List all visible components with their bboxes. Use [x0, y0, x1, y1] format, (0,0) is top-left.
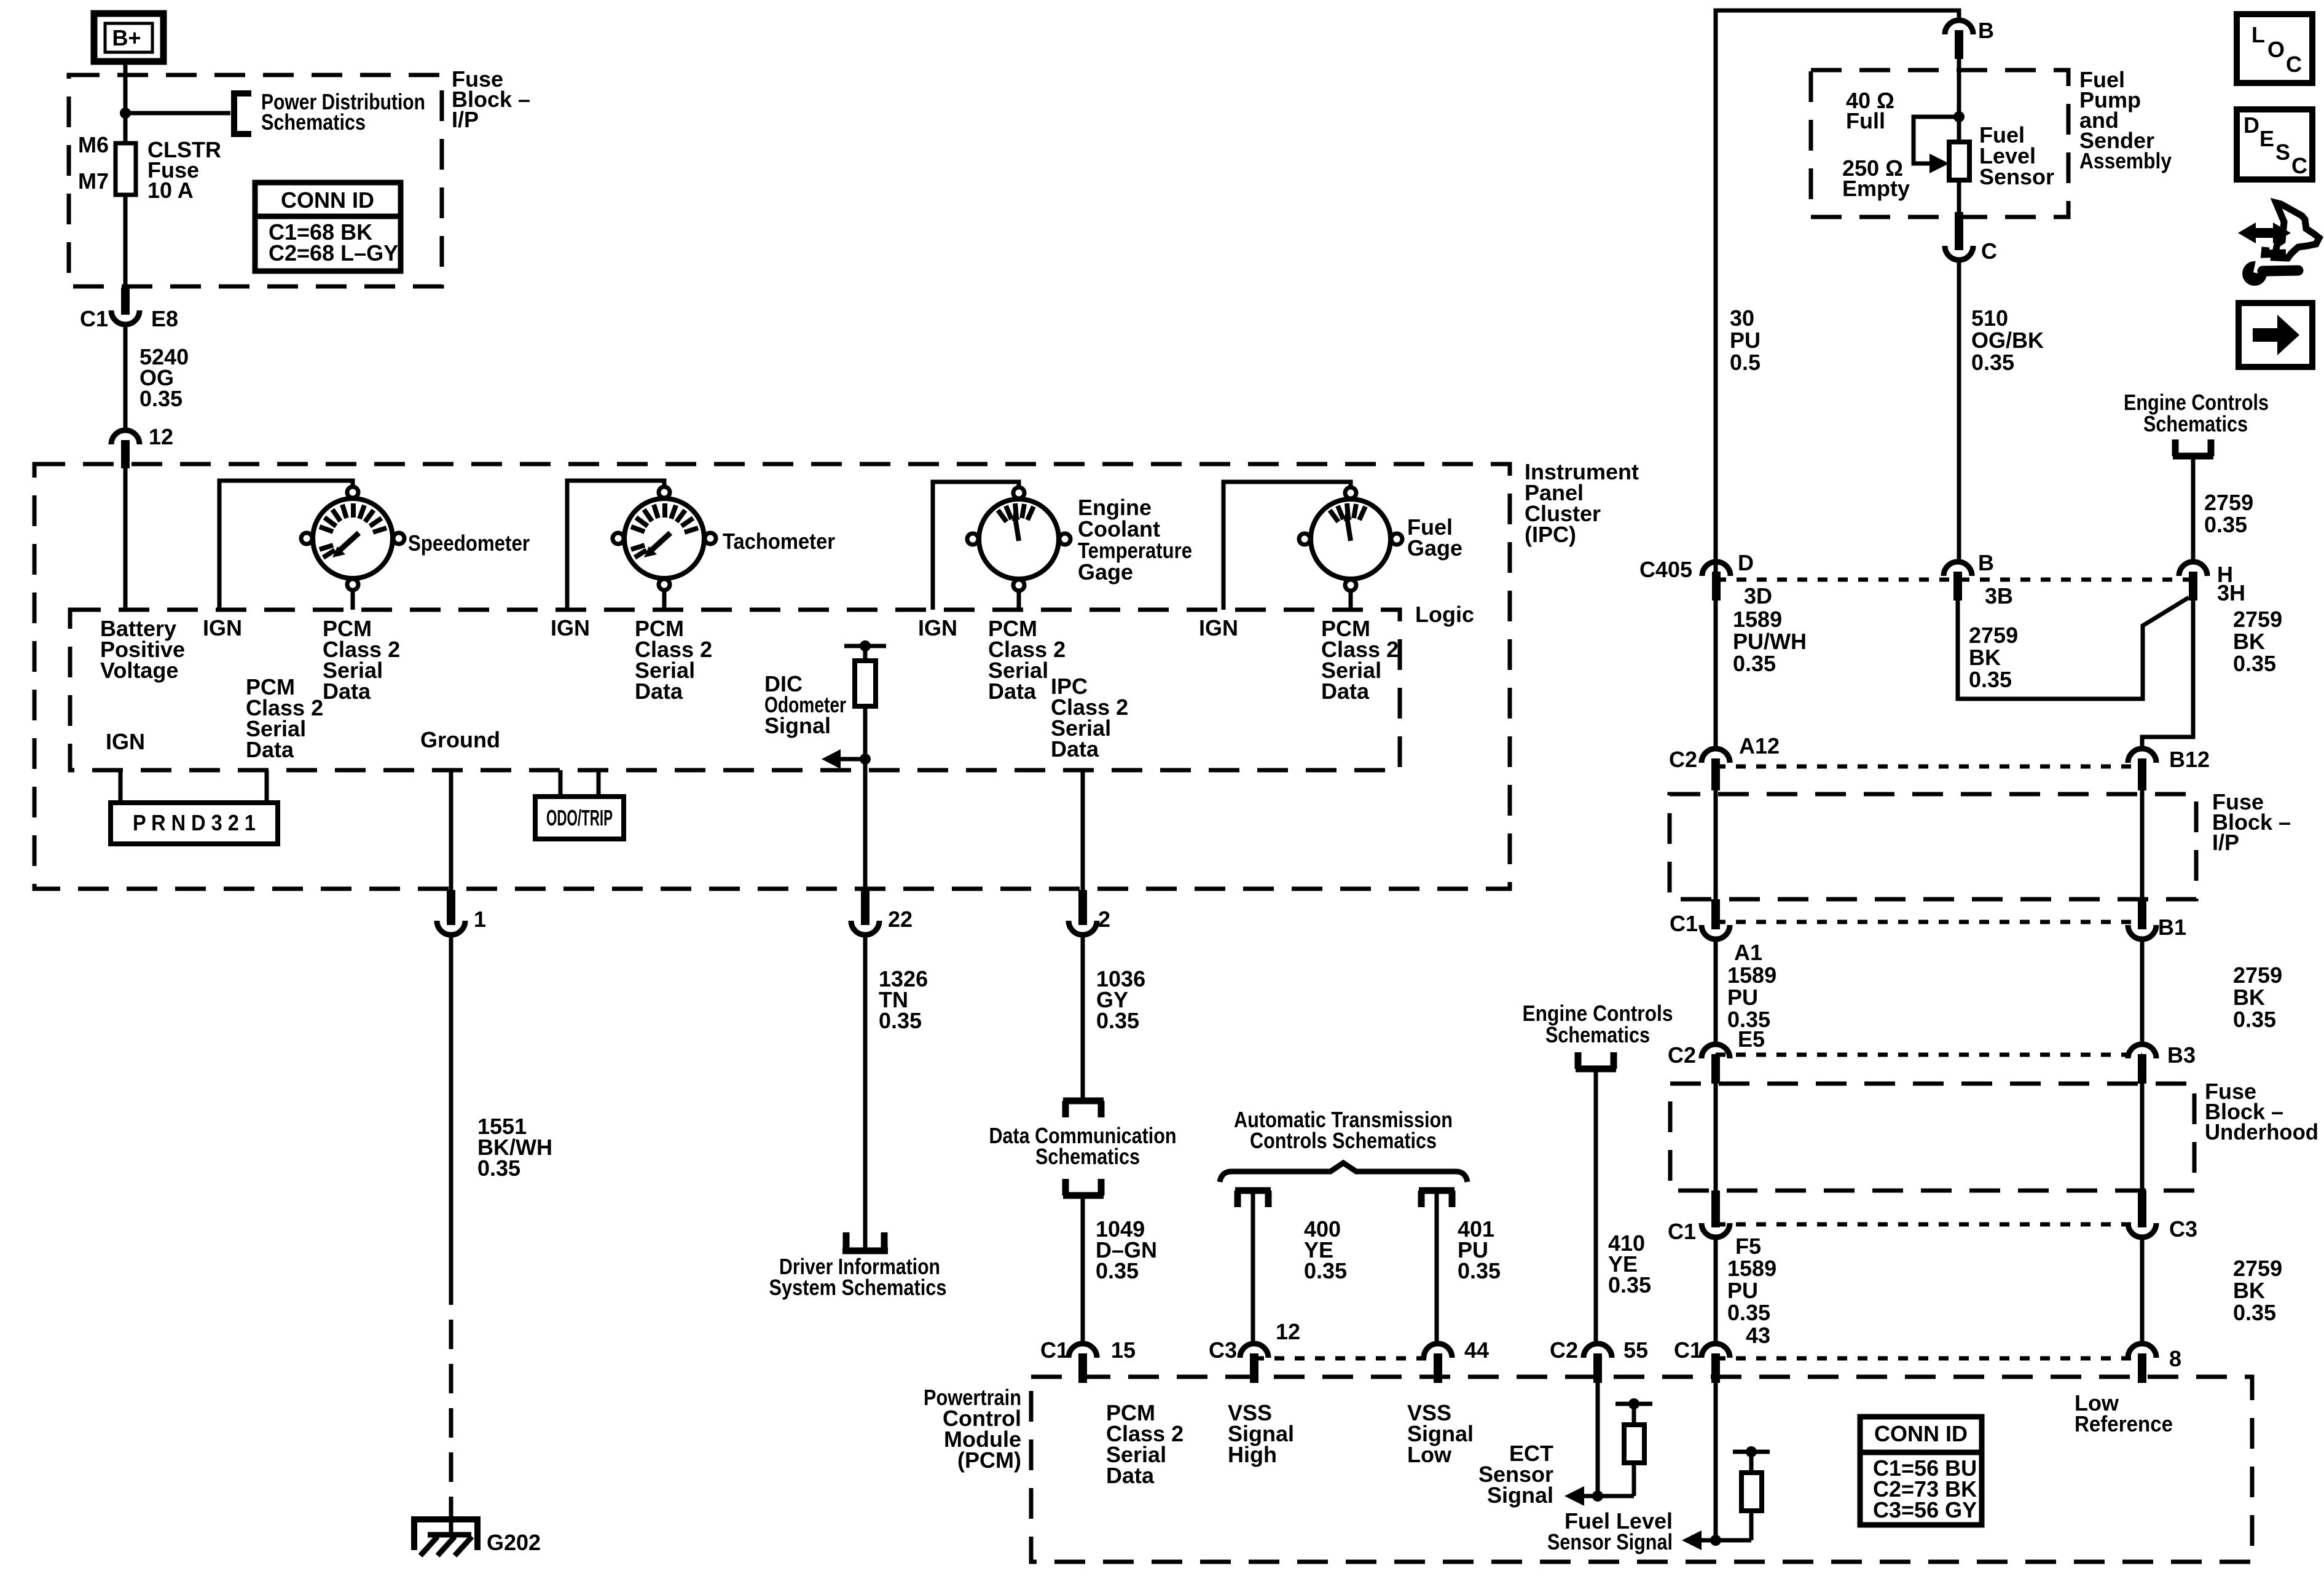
node junction at B+ feed: [120, 108, 131, 119]
connector 12 into IPC: [111, 424, 173, 468]
IPC logic inner dashed box: [70, 610, 1400, 770]
gauge engine coolant temperature: [967, 487, 1192, 591]
connector C3 out of fuse block underhood: [2128, 1191, 2197, 1242]
svg-text:O: O: [2267, 37, 2285, 62]
label battery positive voltage: [100, 616, 185, 683]
svg-text:C: C: [1981, 238, 1997, 264]
svg-text:B3: B3: [2167, 1042, 2196, 1068]
svg-text:IGN: IGN: [551, 615, 590, 640]
svg-text:2759: 2759: [2233, 607, 2282, 632]
svg-text:1589: 1589: [1727, 1256, 1776, 1281]
wire 2759 BK 0.35 (C3-8): [2142, 1237, 2282, 1344]
connector row dotted C1/A1-B1: [1716, 920, 2142, 924]
PRND321 display box: [111, 803, 278, 844]
wire ground drop inside IPC: [449, 770, 453, 890]
label engine controls schematics (right top): [2124, 390, 2269, 436]
label Fuse Block - I/P: [452, 66, 530, 132]
connector row dotted F5-C3: [1716, 1223, 2142, 1227]
wire speedometer PCM data: [351, 590, 355, 610]
wire tachometer PCM data: [662, 590, 667, 610]
connector B12 into fuse block IP: [2128, 747, 2210, 790]
svg-text:F5: F5: [1735, 1234, 1761, 1259]
svg-text:B1: B1: [2158, 915, 2186, 940]
svg-text:C3: C3: [1209, 1337, 1237, 1363]
svg-text:Tachometer: Tachometer: [723, 529, 835, 554]
connector B3 into fuse block underhood: [2128, 1042, 2196, 1084]
wire IGN fuel gage: [1223, 482, 1351, 610]
svg-text:0.35: 0.35: [2233, 651, 2276, 676]
wire battery feed inside IPC: [124, 468, 128, 610]
svg-text:1589: 1589: [1727, 963, 1776, 988]
svg-text:Signal: Signal: [764, 713, 831, 738]
svg-text:Data: Data: [988, 679, 1037, 704]
repair icon double arrow: [2238, 222, 2291, 243]
label Powertrain Control Module (PCM): [924, 1385, 1021, 1473]
svg-text:IGN: IGN: [106, 729, 145, 754]
svg-text:12: 12: [149, 424, 173, 449]
svg-text:BK: BK: [2233, 629, 2265, 654]
wire 5240 OG 0.35: [125, 324, 189, 431]
label 40 ohm full: [1846, 88, 1894, 133]
svg-text:C1: C1: [1670, 911, 1698, 936]
svg-text:0.35: 0.35: [1727, 1300, 1770, 1325]
svg-text:3B: 3B: [1985, 583, 2013, 608]
wire 1036 GY 0.35: [1083, 935, 1145, 1098]
svg-text:(IPC): (IPC): [1525, 522, 1576, 547]
svg-text:8: 8: [2169, 1346, 2181, 1371]
wire 2759 BK 0.35 (3H): [2142, 600, 2282, 749]
wire 2759 BK 0.35 (3B): [1958, 597, 2189, 699]
svg-text:M6: M6: [78, 132, 109, 157]
wire through fuse block underhood right: [2140, 1084, 2145, 1191]
svg-text:OG/BK: OG/BK: [1971, 328, 2044, 353]
wire 400 YE 0.35: [1253, 1194, 1347, 1344]
svg-text:Gage: Gage: [1407, 535, 1462, 561]
svg-text:510: 510: [1971, 305, 2008, 331]
label Engine Controls Schematics (ECT source): [1523, 1001, 1673, 1047]
connector 44 into PCM: [1424, 1337, 1489, 1383]
svg-text:0.35: 0.35: [2233, 1007, 2276, 1032]
svg-text:B: B: [1978, 550, 1994, 575]
svg-text:1: 1: [474, 907, 486, 932]
wire 510 OG/BK 0.35: [1959, 260, 2044, 563]
label PCM class 2 serial data (coolant gauge): [988, 616, 1066, 704]
label VSS signal high: [1228, 1400, 1294, 1467]
label PCM class 2 serial data (speedometer): [323, 616, 400, 704]
svg-text:0.35: 0.35: [1608, 1272, 1651, 1297]
svg-text:Gage: Gage: [1078, 559, 1133, 585]
connector B into fuel pump assembly: [1945, 18, 1994, 59]
fuse block IP dashed box (right): [1670, 794, 2196, 899]
svg-text:PU: PU: [1727, 1278, 1758, 1303]
svg-text:Schematics: Schematics: [2143, 411, 2248, 436]
wire 410 YE 0.35: [1596, 1069, 1651, 1344]
svg-text:D: D: [2244, 112, 2259, 138]
svg-text:22: 22: [888, 907, 913, 932]
wire 1589 PU/WH 0.35 (3D): [1716, 600, 1807, 749]
gauge speedometer: [301, 487, 530, 590]
DESC reference box: [2237, 109, 2312, 179]
wire IGN speedometer: [219, 481, 353, 610]
wire 1551 BK/WH 0.35 to G202: [451, 935, 552, 1509]
connector C1 15 into PCM: [1040, 1337, 1136, 1383]
svg-text:Ground: Ground: [420, 727, 500, 752]
wire 1049 D-GN 0.35: [1083, 1195, 1157, 1344]
label PCM class 2 serial data (PRND321): [246, 674, 323, 762]
label PCM class 2 serial data (tachometer): [635, 616, 712, 704]
connector B1 out of fuse block IP: [2128, 899, 2186, 940]
svg-text:C: C: [2286, 52, 2302, 77]
tab Driver Information System Schematics: [769, 1232, 947, 1300]
svg-text:0.35: 0.35: [1971, 350, 2014, 375]
svg-text:C: C: [2291, 153, 2307, 178]
svg-text:I/P: I/P: [452, 107, 479, 132]
tab VSS low from AT controls: [1419, 1191, 1454, 1207]
svg-text:Data: Data: [1106, 1463, 1155, 1488]
wire 2759 0.35 to H: [2193, 456, 2253, 563]
svg-text:BK: BK: [2233, 985, 2265, 1010]
wire IGN coolant gauge: [933, 482, 1019, 610]
svg-text:P R N D 3 2 1: P R N D 3 2 1: [133, 810, 256, 835]
svg-text:IGN: IGN: [203, 615, 242, 640]
svg-text:43: 43: [1746, 1323, 1770, 1348]
fuel level sensor potentiometer: [1914, 59, 1969, 212]
tab Power Distribution Schematics: [231, 89, 425, 137]
gauge tachometer: [613, 487, 835, 590]
wire 1589 PU 0.35 (F5-43): [1716, 1237, 1776, 1344]
connector C2 A12 into fuse block IP: [1669, 733, 1780, 790]
svg-text:E8: E8: [151, 306, 178, 331]
svg-text:IGN: IGN: [918, 615, 957, 640]
label ECT sensor signal: [1478, 1441, 1553, 1508]
svg-text:44: 44: [1464, 1337, 1489, 1363]
svg-text:Voltage: Voltage: [100, 658, 178, 683]
connector 2 (IPC class 2 serial data out of IPC): [1069, 890, 1110, 935]
wire through fuse block IP right: [2140, 790, 2145, 899]
wire 2759 BK 0.35 (B1-B3): [2142, 939, 2282, 1045]
repair icon part outline: [2274, 203, 2319, 258]
svg-text:PU: PU: [1730, 328, 1761, 353]
svg-text:C2: C2: [1669, 747, 1697, 772]
svg-text:0.35: 0.35: [477, 1156, 520, 1181]
C405 connector row dotted line: [1716, 578, 2193, 582]
svg-text:A12: A12: [1739, 733, 1780, 758]
svg-text:Sensor: Sensor: [1979, 164, 2054, 189]
fuse block underhood dashed box: [1670, 1084, 2194, 1191]
ground G202: [414, 1509, 541, 1556]
svg-text:10 A: 10 A: [147, 178, 194, 203]
svg-text:Reference: Reference: [2075, 1411, 2173, 1436]
instrument panel cluster IPC dashed box: [34, 464, 1510, 889]
label Automatic Transmission Controls Schematics: [1234, 1107, 1453, 1153]
svg-text:12: 12: [1276, 1319, 1300, 1344]
connector row dotted E5-B3: [1716, 1053, 2142, 1057]
fuel pump and sender assembly dashed box: [1811, 70, 2068, 217]
svg-text:C3: C3: [2169, 1216, 2197, 1242]
svg-text:0.35: 0.35: [2233, 1300, 2276, 1325]
tab VSS high from AT controls: [1235, 1191, 1271, 1207]
label fuse block underhood: [2205, 1079, 2318, 1144]
tab out of Data Communication Schematics: [1063, 1179, 1104, 1195]
wire 401 PU 0.35: [1437, 1194, 1501, 1344]
svg-text:Logic: Logic: [1415, 602, 1474, 627]
svg-text:Data: Data: [635, 679, 683, 704]
svg-text:2: 2: [1098, 907, 1110, 932]
repair icon base line: [2265, 247, 2286, 254]
svg-text:High: High: [1228, 1442, 1277, 1467]
svg-text:C2: C2: [1550, 1337, 1578, 1363]
label fuse block IP (right): [2212, 789, 2291, 855]
svg-text:BK: BK: [2233, 1278, 2265, 1303]
svg-text:CONN ID: CONN ID: [281, 187, 374, 213]
svg-text:15: 15: [1111, 1337, 1136, 1363]
fuse block I/P dashed box (top left): [69, 75, 442, 286]
svg-text:0.35: 0.35: [1458, 1258, 1501, 1283]
battery B+ terminal box: [94, 14, 163, 61]
svg-text:Low: Low: [1407, 1442, 1452, 1467]
svg-text:PU: PU: [1727, 985, 1758, 1010]
svg-text:CONN ID: CONN ID: [1874, 1421, 1968, 1446]
svg-text:C1: C1: [1040, 1337, 1069, 1363]
label low reference: [2075, 1390, 2173, 1436]
svg-text:3H: 3H: [2217, 580, 2245, 605]
svg-text:Schematics: Schematics: [1035, 1144, 1140, 1169]
svg-text:Sensor Signal: Sensor Signal: [1547, 1529, 1673, 1554]
wire fuel pump feed top: [1716, 10, 1959, 578]
svg-text:Data: Data: [1321, 679, 1370, 704]
svg-text:(PCM): (PCM): [957, 1447, 1021, 1473]
ECT sensor signal circuit inside PCM: [1564, 1383, 1652, 1506]
svg-text:0.35: 0.35: [1096, 1258, 1139, 1283]
connector 1 (ground wire out of IPC): [437, 890, 486, 935]
tab from engine controls schematics (right): [2173, 439, 2213, 456]
svg-text:IGN: IGN: [1199, 615, 1238, 640]
svg-text:Underhood: Underhood: [2205, 1119, 2318, 1144]
svg-text:0.35: 0.35: [1969, 667, 2012, 692]
svg-text:S: S: [2275, 140, 2290, 165]
svg-text:A1: A1: [1734, 940, 1762, 965]
svg-text:Assembly: Assembly: [2079, 148, 2172, 173]
svg-text:0.35: 0.35: [1096, 1008, 1139, 1033]
svg-text:G202: G202: [487, 1530, 541, 1555]
wire fuel gage PCM data: [1349, 591, 1353, 610]
connector 22 (DIC odometer signal out of IPC): [851, 890, 913, 935]
svg-text:2759: 2759: [1969, 623, 2018, 648]
connector 8 into PCM: [2128, 1344, 2181, 1383]
label DIC odometer signal: [764, 671, 846, 738]
PCM connector row dotted link C1-43 to 8: [1716, 1357, 2142, 1361]
svg-text:B12: B12: [2169, 747, 2210, 772]
svg-text:M7: M7: [78, 168, 109, 194]
repair icon wrench: [2242, 261, 2298, 286]
svg-text:Controls Schematics: Controls Schematics: [1250, 1128, 1437, 1153]
connector C2 55 into PCM: [1550, 1337, 1648, 1383]
connector C1 43 into PCM: [1674, 1323, 1770, 1383]
wire coolant gauge PCM data: [1017, 591, 1021, 610]
connector C2 E5 into fuse block underhood: [1668, 1026, 1765, 1084]
wire 1589 PU 0.35 (A1-E5): [1716, 939, 1776, 1045]
LOC reference box (top right): [2237, 14, 2312, 83]
svg-text:Full: Full: [1846, 108, 1885, 133]
brace for automatic transmission tabs: [1220, 1163, 1467, 1182]
svg-text:Data: Data: [1051, 736, 1099, 762]
wire IGN to PRND321: [119, 770, 123, 803]
svg-text:BK: BK: [1969, 645, 2001, 670]
svg-text:2759: 2759: [2204, 490, 2253, 515]
svg-text:0.35: 0.35: [139, 386, 183, 411]
connector C3 12 into PCM: [1209, 1319, 1300, 1383]
svg-text:0.35: 0.35: [1304, 1258, 1347, 1283]
svg-text:C2: C2: [1668, 1042, 1696, 1068]
label fuel level sensor: [1979, 122, 2054, 189]
DIC odometer resistor with tap: [822, 640, 886, 889]
connector C out of fuel pump assembly: [1945, 212, 1997, 264]
PCM connector row dotted link C3-12 to 44: [1254, 1357, 1438, 1361]
svg-text:System Schematics: System Schematics: [769, 1275, 947, 1300]
svg-text:3D: 3D: [1744, 583, 1772, 608]
svg-text:PU/WH: PU/WH: [1733, 629, 1807, 654]
svg-text:L: L: [2251, 22, 2265, 47]
svg-text:0.35: 0.35: [2204, 512, 2247, 537]
connector row dotted A12-B12: [1716, 765, 2142, 769]
label 250 ohm empty: [1842, 156, 1910, 201]
svg-text:I/P: I/P: [2212, 830, 2239, 855]
svg-text:ODO/TRIP: ODO/TRIP: [546, 805, 613, 830]
powertrain control module PCM dashed box: [1031, 1377, 2252, 1562]
fuse CLSTR 10A: [78, 132, 221, 203]
label IPC class 2 serial data: [1051, 674, 1128, 762]
connector D of C405: [1702, 550, 1772, 608]
svg-text:0.35: 0.35: [879, 1008, 922, 1033]
svg-text:2759: 2759: [2233, 1256, 2282, 1281]
label VSS signal low: [1407, 1400, 1474, 1467]
wire through fuse block underhood left: [1714, 1084, 1718, 1191]
svg-text:0.5: 0.5: [1730, 350, 1761, 375]
wire IPC class 2 serial data drop: [1081, 770, 1085, 890]
svg-text:C1: C1: [1674, 1337, 1702, 1363]
CONN ID table (PCM): [1860, 1417, 1982, 1525]
connector C1 F5 out of fuse block underhood: [1668, 1191, 1761, 1259]
label Instrument Panel Cluster (IPC): [1525, 459, 1639, 547]
wire 1326 TN 0.35: [865, 935, 928, 1248]
svg-text:0.35: 0.35: [1733, 651, 1776, 676]
label fuel pump and sender assembly: [2079, 67, 2172, 173]
svg-text:Schematics: Schematics: [261, 109, 366, 135]
wire 30 PU 0.5: [1730, 305, 1761, 375]
svg-text:B: B: [1978, 18, 1994, 43]
svg-text:Data: Data: [323, 679, 371, 704]
wire B+ to fuse and connector C1 E8: [124, 61, 128, 289]
label PCM class 2 serial data (fuel gage): [1321, 616, 1399, 704]
wire PCM data to PRND321: [265, 770, 269, 803]
next-page arrow box: [2239, 303, 2312, 367]
svg-text:Speedometer: Speedometer: [408, 530, 530, 556]
svg-text:C1: C1: [80, 306, 108, 331]
label PCM class 2 serial data pin 15: [1106, 1400, 1184, 1488]
tab from Engine Controls Schematics (ECT): [1576, 1052, 1616, 1069]
wires to ODO/TRIP: [559, 770, 563, 797]
svg-text:D: D: [1738, 550, 1754, 575]
wire IGN tachometer: [567, 481, 664, 610]
tab into Data Communication Schematics: [989, 1101, 1177, 1169]
connector H of C405: [2179, 562, 2245, 605]
svg-text:C3=56 GY: C3=56 GY: [1873, 1497, 1977, 1522]
label fuel level sensor signal: [1547, 1508, 1673, 1554]
connector C1 A1 out of fuse block IP: [1670, 899, 1762, 965]
wire to Power Distribution tab: [125, 111, 230, 116]
CONN ID table (fuse block I/P): [255, 183, 401, 271]
svg-text:Signal: Signal: [1487, 1483, 1553, 1508]
ODO/TRIP display box: [535, 797, 624, 839]
wire through fuse block IP left: [1714, 790, 1718, 899]
svg-text:30: 30: [1730, 305, 1754, 331]
svg-text:Empty: Empty: [1842, 176, 1910, 201]
svg-text:Data: Data: [246, 737, 294, 762]
svg-text:B+: B+: [112, 25, 141, 50]
connector C1 E8: [80, 288, 178, 331]
connector B of C405: [1944, 550, 2013, 608]
svg-text:55: 55: [1623, 1337, 1648, 1363]
svg-text:1589: 1589: [1733, 607, 1782, 632]
svg-text:2759: 2759: [2233, 963, 2282, 988]
gauge fuel: [1299, 487, 1462, 591]
svg-text:E5: E5: [1738, 1026, 1765, 1052]
svg-text:C405: C405: [1639, 557, 1692, 582]
svg-text:C1: C1: [1668, 1219, 1696, 1244]
svg-text:C2=68 L–GY: C2=68 L–GY: [269, 240, 398, 266]
svg-text:E: E: [2259, 126, 2274, 151]
svg-text:Schematics: Schematics: [1545, 1022, 1650, 1047]
fuel level sensor signal circuit inside PCM: [1682, 1383, 1770, 1550]
